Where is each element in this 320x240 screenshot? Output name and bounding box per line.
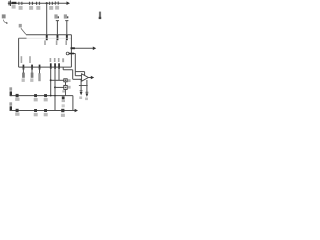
wire output VOUT from IC right edge — [71, 47, 93, 49]
net label pin B line2 — [30, 78, 33, 82]
net label pin B line1 — [31, 73, 34, 78]
label C4 — [49, 6, 53, 10]
label C5 — [55, 6, 59, 10]
IC U1 right edge — [70, 35, 72, 67]
label R3 — [68, 79, 71, 82]
component R4 body with mark — [64, 85, 67, 89]
label C1 — [19, 6, 23, 10]
arrowhead opamp output — [91, 76, 94, 80]
label C2 — [29, 6, 33, 10]
capacitor body rail1 d below rail — [62, 96, 65, 99]
op-amp U2 triangle — [82, 74, 89, 81]
node VDD junction dot — [46, 2, 48, 4]
node pin E line2 junction — [54, 86, 56, 88]
wire divider bottom to rail1 — [65, 89, 67, 95]
pin label inside bottom-right — [62, 58, 64, 62]
tick on ground arrow B — [85, 91, 88, 93]
leader curved arrow for 110 — [3, 20, 6, 23]
wire VDD vertical to bus — [46, 3, 48, 38]
capacitor body rail2 c — [44, 109, 47, 112]
pin 8 circle on IC right edge — [66, 52, 69, 55]
wire bottom pin F — [58, 67, 60, 80]
wire pin8 to opamp inverting input — [74, 54, 75, 76]
minus mark inverting input — [80, 74, 81, 77]
net label pin C — [38, 73, 40, 81]
capacitor body rail1 b — [34, 94, 37, 97]
label rail1 c — [44, 98, 48, 101]
arrowhead VOUT — [93, 47, 96, 51]
wire bottom pin A stub — [22, 67, 24, 73]
pin marker bottom pin B — [31, 65, 33, 70]
pin label inside bottom-left 2 — [29, 56, 31, 63]
wire top power rail — [8, 2, 68, 4]
pin marker top pin 3 — [66, 35, 68, 40]
IC U1 left edge — [18, 38, 20, 67]
fuse F1 thick body — [11, 2, 16, 4]
wire opamp output — [88, 77, 91, 79]
wire inverting input — [75, 75, 81, 77]
label rail2 c — [44, 113, 48, 116]
pin label inside under pin3 — [65, 40, 67, 45]
pin marker bottom pin E — [54, 63, 56, 69]
thick junction at VOUT start — [71, 47, 75, 49]
pin marker bottom pin F — [58, 63, 60, 69]
node rail1 pin D junction — [50, 95, 52, 97]
label under F1 — [12, 5, 16, 9]
tick on ground arrow A — [80, 90, 83, 92]
node rail1 pin E junction — [54, 95, 56, 97]
wire opamp noninverting input — [73, 78, 82, 80]
label rail2 b — [34, 113, 38, 116]
label rail1 a — [15, 98, 19, 101]
capacitor body rail2 b — [34, 109, 37, 112]
arrowhead rail2 output — [75, 109, 78, 113]
wire rail2 — [10, 110, 75, 112]
net label pin A line1 — [22, 73, 25, 78]
pin label inside bottom-mid 2 — [54, 58, 56, 62]
label above rail1 terminal — [9, 87, 12, 90]
capacitor body rail1 a — [16, 94, 19, 97]
pin marker top pin 1 — [46, 35, 48, 40]
connector J1 input terminal — [9, 0, 10, 6]
label 102 reference numeral near bus — [19, 24, 22, 28]
wire link bar under opamp — [79, 85, 88, 87]
leader line from 102 to bus — [21, 28, 26, 34]
label net SDA — [54, 14, 57, 18]
label C3 — [36, 6, 40, 10]
label 100 reference numeral top-right rotated — [99, 12, 101, 19]
IC U1 top edge faint — [27, 37, 72, 39]
wire bottom pin B stub — [31, 67, 33, 73]
wire bottom pin C stub — [39, 67, 41, 73]
IC U1 bottom edge — [19, 66, 72, 68]
label net SCL — [64, 14, 67, 18]
component R3 body with mark — [64, 79, 67, 82]
pin marker bottom pin C — [39, 65, 41, 70]
capacitor C2 body on rail — [29, 2, 32, 5]
wire SDA vertical with T tick — [56, 21, 59, 39]
capacitor body rail2 d — [61, 109, 64, 112]
wire feedback drop into triangle — [84, 72, 86, 77]
pin label inside bottom-mid 3 — [58, 58, 60, 62]
ground arrow B — [86, 94, 89, 97]
wire SCL vertical with T tick — [65, 21, 68, 39]
wire down from opamp bottom — [86, 80, 88, 94]
wire bottom pin G to divider — [63, 67, 72, 79]
label rail2 a — [15, 113, 19, 116]
wire rail1 end drop to rail2 — [72, 96, 74, 111]
wire bus horizontal — [26, 34, 71, 36]
plus mark noninverting input — [80, 78, 81, 81]
capacitor C1 body on rail — [19, 2, 22, 5]
terminal symbol rail2 — [10, 106, 12, 111]
label rail1 d — [62, 100, 65, 102]
label under ground A — [79, 96, 82, 99]
node pin D line1 junction — [50, 79, 52, 81]
label rail1 b — [34, 98, 38, 101]
IC U1 top edge stub — [19, 37, 27, 39]
pin 8 thick stub — [69, 53, 74, 55]
pin marker bottom pin D — [50, 63, 52, 69]
arrowhead top rail output — [67, 1, 71, 5]
capacitor body rail2 a — [16, 109, 19, 112]
wire feedback loop top — [75, 71, 84, 73]
net label pin A line2 — [22, 78, 25, 82]
wire rail1 — [10, 95, 73, 97]
pin label inside bottom-left 1 — [21, 56, 23, 63]
label above rail2 terminal — [9, 102, 12, 105]
wire line2 — [55, 86, 64, 88]
label under ground B — [85, 98, 88, 101]
wire between divider components — [65, 82, 67, 86]
pin label inside bottom-mid 1 — [50, 58, 52, 62]
capacitor C3 body on rail — [37, 2, 40, 5]
capacitor C5 body on rail — [55, 2, 58, 5]
label R4 — [68, 86, 71, 89]
terminal symbol rail1 — [10, 91, 12, 96]
wire line1 — [51, 79, 64, 81]
ground arrow A — [80, 92, 83, 95]
label 110 reference numeral top-left — [2, 14, 6, 18]
label above rail2 d — [62, 104, 65, 107]
pin label inside under pin2 — [56, 40, 58, 45]
label rail2 d — [61, 114, 65, 117]
wire bottom pin D long — [50, 67, 52, 96]
pin label inside under pin1 — [44, 40, 46, 45]
capacitor C4 body on rail — [49, 2, 52, 5]
wire bottom pin E — [54, 67, 56, 110]
pin marker top pin 2 — [57, 35, 59, 40]
pin marker bottom pin A — [23, 65, 25, 70]
label under R4 — [62, 90, 65, 92]
wire down from noninv input — [80, 79, 82, 92]
capacitor body rail1 c — [44, 94, 47, 97]
